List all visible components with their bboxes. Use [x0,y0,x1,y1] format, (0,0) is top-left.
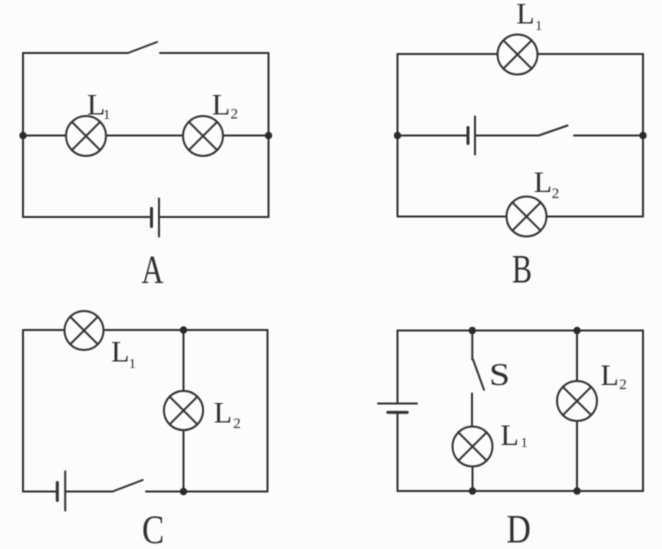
svg-text:L: L [601,359,619,392]
svg-text:1: 1 [521,436,528,451]
svg-text:1: 1 [129,357,136,372]
svg-text:L: L [516,0,534,30]
svg-text:D: D [507,507,531,549]
svg-text:2: 2 [233,416,241,432]
svg-text:1: 1 [103,108,110,123]
svg-text:S: S [489,356,510,392]
svg-text:L: L [534,166,552,199]
svg-text:L: L [212,89,230,122]
svg-text:L: L [111,336,129,369]
svg-text:C: C [142,507,164,549]
svg-text:1: 1 [535,19,542,34]
svg-text:2: 2 [231,107,239,123]
svg-text:2: 2 [619,377,627,393]
svg-text:B: B [512,247,532,292]
svg-text:L: L [214,397,232,430]
svg-text:2: 2 [552,186,560,202]
svg-text:A: A [142,247,164,292]
svg-text:L: L [501,419,519,452]
